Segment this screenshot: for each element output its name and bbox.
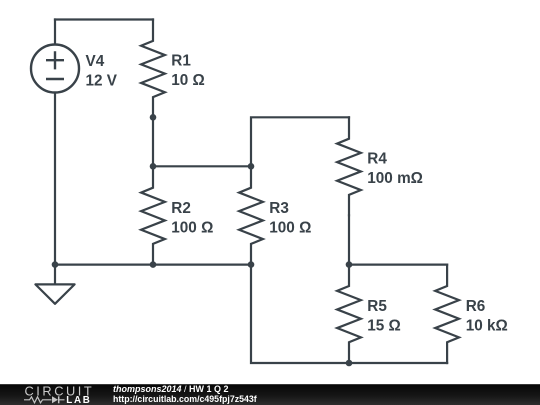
footer title text: [113, 384, 257, 404]
node junction R2 bottom: [150, 261, 157, 268]
svg-text:R2: R2: [171, 200, 191, 217]
footer bar: [0, 384, 540, 405]
node junction R3 bottom: [248, 261, 255, 268]
wire V4 bottom lead: [54, 93, 56, 265]
svg-text:15 Ω: 15 Ω: [367, 318, 401, 335]
wire node to R3 top: [153, 165, 251, 167]
resistor R6: [435, 265, 459, 363]
voltage source V4: [31, 45, 79, 93]
wire top from V4 to R1: [55, 18, 153, 20]
wire ground stub: [54, 265, 56, 285]
svg-text:100 Ω: 100 Ω: [269, 219, 311, 236]
wire node to R6 top: [349, 264, 447, 266]
node junction R5 bottom: [346, 360, 353, 367]
resistor R3: [239, 166, 263, 264]
node junction R3 top: [248, 163, 255, 170]
node junction R4/R5: [346, 261, 353, 268]
wire ground bus: [55, 264, 251, 266]
resistor R1: [141, 20, 165, 118]
CircuitLab logo: [24, 383, 94, 405]
resistor R2: [141, 166, 165, 264]
resistor R4: [337, 117, 361, 215]
resistor R5: [337, 265, 361, 363]
svg-text:R6: R6: [466, 298, 486, 315]
wire R4 bottom lead: [348, 215, 350, 264]
wire R3 bottom down and across bottom: [251, 265, 447, 363]
wire V4 top lead: [54, 20, 56, 45]
svg-text:R1: R1: [171, 53, 191, 70]
node junction ground at V4: [52, 261, 59, 268]
svg-text:10 kΩ: 10 kΩ: [466, 318, 508, 335]
label R6 value: [466, 298, 508, 335]
wire R1 bottom to R2 top node: [152, 117, 154, 166]
node junction below R1: [150, 114, 157, 121]
node junction R2 top: [150, 163, 157, 170]
svg-text:V4: V4: [86, 53, 105, 70]
svg-text:http://circuitlab.com/c495fpj7: http://circuitlab.com/c495fpj7z543f: [113, 394, 257, 404]
svg-text:10 Ω: 10 Ω: [171, 72, 205, 89]
label R5 value: [367, 298, 401, 335]
svg-text:100 mΩ: 100 mΩ: [367, 170, 423, 187]
label R4 value: [367, 151, 423, 188]
svg-text:R4: R4: [367, 151, 387, 168]
wire R3 top up and across to R4: [251, 117, 349, 166]
svg-text:100 Ω: 100 Ω: [171, 219, 213, 236]
svg-text:R3: R3: [269, 200, 289, 217]
svg-text:12 V: 12 V: [86, 72, 118, 89]
svg-text:thompsons2014 / HW 1 Q 2: thompsons2014 / HW 1 Q 2: [113, 384, 229, 394]
label R2 value: [171, 200, 213, 237]
label R3 value: [269, 200, 311, 237]
ground: [35, 284, 74, 303]
label R1 value: [171, 53, 205, 90]
label V4 value: [86, 53, 118, 90]
svg-text:LAB: LAB: [66, 395, 91, 405]
svg-text:R5: R5: [367, 298, 387, 315]
